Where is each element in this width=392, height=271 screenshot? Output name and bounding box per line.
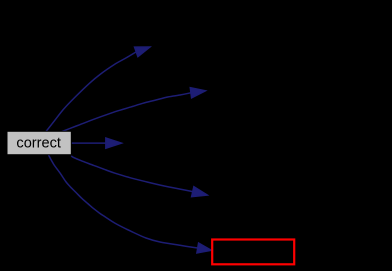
edge 4 (correct to fourth node) bbox=[71, 156, 192, 192]
svg-text:correct: correct bbox=[16, 135, 61, 151]
edge 1 (correct to top node) bbox=[46, 52, 136, 132]
arrowhead of edge 4 (correct to fourth node) bbox=[191, 186, 208, 197]
arrowhead of edge 2 (correct to second node) bbox=[190, 87, 206, 98]
edge 2 (correct to second node) bbox=[62, 93, 191, 132]
edge 3 (correct to middle node) bbox=[71, 142, 106, 144]
arrowhead of edge 1 (correct to top node) bbox=[134, 47, 150, 57]
node truncated (red border, hidden label) bbox=[212, 240, 294, 265]
node correct (current node, grey fill) bbox=[7, 131, 71, 154]
arrowhead of edge 3 (correct to middle node) bbox=[106, 138, 123, 149]
edge 5 (correct to red truncated node) bbox=[49, 155, 198, 248]
arrowhead of edge 5 (correct to red truncated node) bbox=[197, 243, 212, 254]
